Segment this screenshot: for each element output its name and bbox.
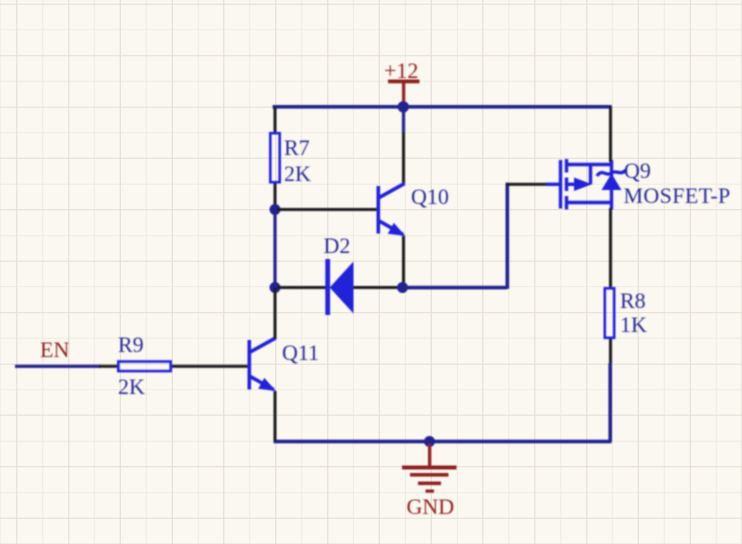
node GND junction — [424, 436, 435, 447]
resistor R9 — [118, 362, 170, 372]
wire Q11 emitter down (black) — [274, 391, 277, 441]
svg-text:EN: EN — [40, 337, 69, 362]
wire R9 to Q11 base (black) — [172, 365, 248, 368]
svg-text:R7: R7 — [284, 135, 310, 160]
wire R7 bottom lead — [274, 184, 277, 210]
wire EN lead (navy) — [15, 365, 101, 368]
resistor R8 — [605, 288, 614, 338]
wire R8 bottom (black) — [609, 339, 612, 363]
wire gate riser vertical (navy) — [506, 183, 510, 289]
node D2 right junction — [397, 282, 408, 293]
wire R8 to bottom rail (navy) — [608, 363, 612, 442]
wire D2 right lead (black) — [354, 286, 400, 289]
transistor Q11 — [249, 338, 275, 390]
wire D2 left lead (black) — [277, 286, 327, 289]
svg-text:2K: 2K — [284, 161, 311, 186]
svg-text:Q9: Q9 — [624, 158, 651, 183]
svg-text:R8: R8 — [620, 288, 646, 313]
svg-text:Q11: Q11 — [282, 340, 319, 365]
wire R7 top lead — [274, 107, 277, 133]
transistor Q9 MOSFET-P — [546, 159, 626, 210]
node D2 left junction — [270, 282, 281, 293]
wire right top vertical (black) — [609, 106, 612, 162]
svg-text:1K: 1K — [620, 312, 647, 337]
svg-text:D2: D2 — [324, 233, 351, 258]
wire Q10 collector upper (navy) — [402, 106, 405, 132]
wire Q10 base (black) — [277, 208, 377, 211]
wire top rail — [273, 105, 612, 109]
node R7 bottom junction — [270, 204, 281, 215]
resistor R7 — [270, 133, 279, 182]
svg-text:Q10: Q10 — [411, 184, 449, 209]
ground — [402, 444, 457, 493]
wire Q11 collector to D2 node (black) — [274, 288, 277, 339]
wire bottom rail (navy) — [274, 440, 612, 444]
svg-text:+12: +12 — [384, 58, 418, 83]
transistor Q10 — [378, 184, 404, 235]
power symbol +12 — [384, 58, 420, 104]
wire gate horizontal (black) — [506, 183, 549, 186]
svg-text:MOSFET-P: MOSFET-P — [624, 183, 731, 208]
wire EN to R9 (black) — [99, 365, 117, 368]
wire R7 node down to D2 node (navy) — [273, 210, 276, 287]
wire D2 node to gate riser (navy) — [402, 286, 507, 290]
wire Q10 emitter to D2 node (black) — [402, 236, 405, 288]
diode D2 — [325, 259, 353, 315]
node +12 junction — [398, 101, 409, 112]
wire MOSFET to R8 (black) — [609, 208, 612, 288]
wire Q10 collector lower (black) — [402, 132, 405, 184]
svg-text:2K: 2K — [118, 374, 145, 399]
svg-text:R9: R9 — [118, 332, 144, 357]
svg-text:GND: GND — [407, 494, 455, 519]
